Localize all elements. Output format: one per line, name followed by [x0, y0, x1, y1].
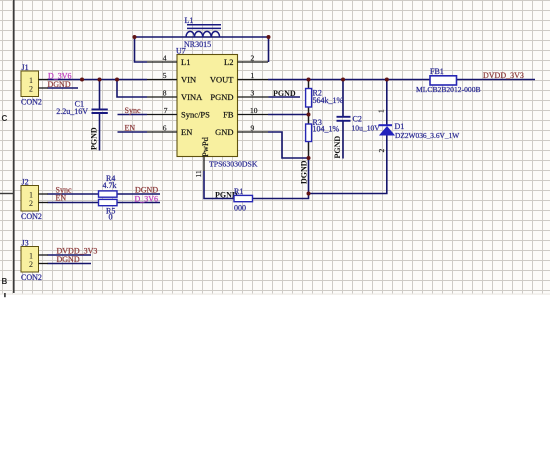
wire R3 bottom lead — [308, 142, 310, 159]
wire R3 top lead — [308, 115, 310, 125]
svg-text:GND: GND — [215, 127, 233, 137]
svg-text:PwPd: PwPd — [200, 136, 210, 157]
junction inductor right — [267, 35, 271, 39]
svg-text:PGND: PGND — [210, 92, 233, 102]
svg-text:J1: J1 — [22, 63, 29, 72]
J3 pin 1 — [39, 254, 49, 256]
R4 body — [99, 191, 118, 197]
op-amp/converter IC U7 body — [176, 46, 258, 168]
sheet background grid — [0, 0, 550, 294]
junction GND join — [307, 156, 311, 160]
svg-text:2.2u_16V: 2.2u_16V — [56, 107, 88, 116]
wire Sync to U7.7 — [118, 114, 148, 116]
J1 pin 2 — [39, 87, 49, 89]
wire VOUT net U7.1 to DVDD_3V3 — [268, 79, 535, 81]
svg-text:0: 0 — [109, 213, 113, 222]
svg-text:1: 1 — [377, 109, 386, 113]
C1 plate lower — [92, 112, 108, 114]
svg-text:DGND: DGND — [48, 80, 71, 89]
U7 pin 7 Sync/PS — [147, 106, 210, 119]
svg-text:VINA: VINA — [181, 92, 203, 102]
svg-text:DGND: DGND — [57, 255, 80, 264]
svg-text:L1: L1 — [185, 16, 194, 25]
svg-text:L1: L1 — [181, 57, 190, 67]
resistor R1 — [234, 187, 253, 212]
svg-text:PGND: PGND — [273, 89, 296, 98]
inductor L1 — [184, 16, 221, 49]
wire DGND stub from J1.2 — [48, 87, 79, 89]
wire FB net U7.10 to divider — [268, 114, 309, 116]
FB1 body — [430, 76, 457, 85]
svg-text:Sync: Sync — [125, 106, 141, 115]
wire C1 bottom to PGND — [99, 114, 101, 151]
svg-text:4: 4 — [163, 54, 167, 63]
junction inductor left — [133, 35, 137, 39]
wire DGND vertical segment — [308, 158, 310, 194]
R5 body — [99, 199, 118, 205]
wire inductor right drop to U7.2 — [268, 37, 270, 62]
svg-text:NR3015: NR3015 — [184, 40, 211, 49]
U7 pin 1 VOUT — [210, 71, 268, 84]
R3 body — [306, 124, 312, 142]
svg-text:C2: C2 — [353, 115, 362, 124]
wire U7.11 down and PGND run through R1 — [204, 171, 309, 199]
svg-text:B: B — [2, 277, 8, 286]
capacitor C1 — [56, 100, 108, 117]
svg-text:2: 2 — [377, 149, 386, 153]
svg-text:EN: EN — [181, 127, 192, 137]
svg-text:PGND: PGND — [333, 136, 342, 159]
connector J2 — [21, 177, 48, 221]
svg-text:FB1: FB1 — [430, 67, 444, 76]
wire diode cathode up to VOUT net — [386, 80, 388, 126]
R1 body — [234, 195, 253, 201]
resistor R2 — [306, 88, 344, 107]
wire inductor top run — [135, 36, 270, 38]
svg-text:J2: J2 — [22, 177, 29, 186]
svg-text:1: 1 — [251, 71, 255, 80]
junction on VIN wire at x82 — [80, 78, 84, 82]
zener diode D1 — [377, 109, 460, 153]
wire J2.1 Sync row — [48, 193, 161, 195]
svg-text:FB: FB — [223, 110, 234, 120]
svg-text:CON2: CON2 — [21, 212, 42, 221]
U7 pin 8 VINA — [147, 89, 203, 102]
wire inductor left drop to U7.4 — [135, 37, 148, 62]
capacitor C2 — [337, 115, 381, 133]
svg-text:2: 2 — [29, 199, 33, 208]
svg-text:VIN: VIN — [181, 75, 196, 85]
U7 pin 10 FB — [223, 106, 268, 119]
wire PGND stub U7.3 — [269, 96, 301, 98]
junction FB divider — [307, 113, 311, 117]
ferrite bead FB1 — [416, 67, 481, 94]
resistor R5 — [99, 199, 118, 221]
svg-text:EN: EN — [125, 124, 136, 133]
svg-text:564k_1%: 564k_1% — [313, 96, 344, 105]
svg-text:DGND: DGND — [135, 185, 158, 194]
junction D1 top on VOUT — [385, 78, 389, 82]
svg-text:DGND: DGND — [299, 160, 308, 184]
C1 plate upper — [92, 108, 108, 110]
svg-text:4.7k: 4.7k — [103, 181, 117, 190]
L1 core bar upper — [187, 24, 221, 26]
junction C2 top on VOUT — [341, 78, 345, 82]
connector J1 — [21, 63, 48, 107]
U7 pin 5 VIN — [147, 71, 196, 84]
J3 body — [21, 247, 39, 273]
svg-text:10: 10 — [250, 106, 258, 115]
junction VINA branch — [115, 78, 119, 82]
U7 pin 2 L2 — [224, 54, 268, 67]
C2 plate upper — [337, 116, 351, 118]
svg-text:CON2: CON2 — [21, 273, 42, 282]
wire VIN net: J1.1 to U7.5 — [48, 79, 148, 81]
svg-text:L2: L2 — [224, 57, 233, 67]
svg-text:3: 3 — [251, 89, 255, 98]
svg-text:7: 7 — [164, 106, 168, 115]
C2 plate lower — [337, 120, 351, 122]
svg-text:CON2: CON2 — [21, 98, 42, 107]
svg-text:DVDD_3V3: DVDD_3V3 — [483, 71, 524, 80]
L1 winding humps — [186, 31, 220, 37]
junction C1 branch — [98, 78, 102, 82]
svg-text:2: 2 — [251, 54, 255, 63]
wire EN to U7.6 — [118, 131, 148, 133]
svg-text:R1: R1 — [234, 187, 243, 196]
J1 pin 1 — [39, 79, 49, 81]
svg-text:MLCB2B2012-000B: MLCB2B2012-000B — [416, 85, 481, 94]
J2 pin 1 — [39, 193, 49, 195]
wire C1 top lead — [99, 80, 101, 109]
wire J3.1 DVDD row — [48, 254, 92, 256]
wire J2.2 EN row — [48, 202, 161, 204]
J3 pin 2 — [39, 263, 49, 265]
connector J3 — [21, 238, 48, 282]
J1 body — [21, 71, 39, 97]
svg-text:D1: D1 — [395, 122, 405, 131]
U7 pin 6 EN — [147, 124, 192, 137]
sheet border zone divider tick — [0, 193, 14, 194]
svg-text:8: 8 — [163, 89, 167, 98]
svg-text:9: 9 — [251, 124, 255, 133]
svg-text:10u_10V: 10u_10V — [352, 123, 381, 132]
svg-text:11: 11 — [194, 170, 203, 177]
svg-text:Sync/PS: Sync/PS — [181, 110, 210, 120]
svg-text:5: 5 — [163, 71, 167, 80]
U7 pin 3 PGND — [210, 89, 268, 102]
wire R2 bottom lead — [308, 107, 310, 115]
R2 body — [306, 89, 312, 108]
svg-text:6: 6 — [163, 124, 167, 133]
svg-text:TPS63030DSK: TPS63030DSK — [209, 160, 258, 169]
wire C2 top lead — [342, 80, 344, 117]
J2 body — [21, 186, 39, 212]
svg-text:PGND: PGND — [89, 127, 98, 150]
svg-text:D_3V6: D_3V6 — [135, 194, 159, 203]
svg-text:C: C — [2, 114, 8, 123]
svg-text:2: 2 — [29, 84, 33, 93]
svg-text:J3: J3 — [22, 238, 29, 247]
wire R2 top lead — [308, 80, 310, 89]
svg-text:DZ2W036_3.6V_1W: DZ2W036_3.6V_1W — [395, 131, 459, 140]
sheet border vertical line — [13, 0, 15, 293]
svg-text:104_1%: 104_1% — [313, 125, 340, 134]
wire VINA branch to U7.8 — [117, 80, 147, 98]
svg-text:2: 2 — [29, 260, 33, 269]
U7 pin 11 PwPd — [194, 136, 210, 177]
wire C2 bottom to PGND — [342, 122, 344, 159]
junction R2 top on VOUT — [307, 78, 311, 82]
D1 triangle — [380, 127, 394, 135]
clipped zone mark bottom-left — [4, 293, 6, 297]
U7 pin 4 L1 — [147, 54, 190, 67]
sheet bottom edge — [0, 294, 550, 295]
wire J3.2 DGND row — [48, 263, 92, 265]
wire bottom run to diode anode — [309, 135, 387, 194]
resistor R4 — [99, 174, 118, 197]
svg-text:EN: EN — [56, 194, 67, 203]
resistor R3 — [306, 118, 340, 142]
svg-text:000: 000 — [234, 203, 246, 212]
D1 cathode bar — [379, 124, 393, 126]
J2 pin 2 — [39, 202, 49, 204]
U7 pin 9 GND — [215, 124, 268, 137]
svg-text:VOUT: VOUT — [210, 75, 234, 85]
junction bottom node — [307, 192, 311, 196]
wire GND net U7.9 to divider bottom — [268, 132, 309, 158]
L1 core bar lower — [187, 27, 221, 29]
